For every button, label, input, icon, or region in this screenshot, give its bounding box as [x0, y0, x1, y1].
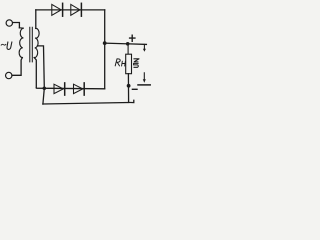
- wire (bottom return rail): [43, 103, 129, 105]
- transformer T1 core: [30, 27, 33, 62]
- wire (secondary center tap): [38, 46, 45, 104]
- wire (load bottom lead): [128, 74, 133, 103]
- node (center-tap / return junction): [43, 87, 47, 91]
- wire (primary bottom to lower terminal): [12, 58, 22, 76]
- label - (negative polarity): [132, 88, 137, 90]
- wire (secondary bottom lead): [34, 58, 36, 88]
- wire (load top tap): [127, 44, 129, 54]
- label + (positive polarity): [130, 35, 135, 41]
- voltage arrow U0 upper segment: [143, 44, 145, 49]
- negative terminal bar: [138, 84, 150, 86]
- wire (secondary top lead to top rail): [35, 10, 37, 29]
- node (negative output junction): [127, 84, 131, 88]
- label U0 (output voltage glyphs): [134, 59, 139, 62]
- wire (top input to primary top): [13, 23, 20, 28]
- wire (bottom rail): [36, 87, 104, 90]
- label RH (load resistor): [115, 59, 120, 66]
- voltage arrow U0 lower segment: [143, 73, 145, 80]
- terminal X1 (top-left input): [6, 20, 12, 26]
- diode D3: [54, 84, 63, 93]
- resistor RH (load): [126, 54, 132, 73]
- wire (top rail): [36, 9, 105, 11]
- transformer T1 primary winding: [19, 28, 24, 58]
- diode D2: [71, 4, 80, 15]
- transformer T1 secondary winding: [34, 28, 39, 57]
- terminal X2 (bottom-left input): [6, 72, 12, 78]
- node (load top junction): [126, 42, 130, 46]
- diode D4: [74, 84, 83, 93]
- label ~U (input voltage): [1, 43, 6, 46]
- diode D1: [52, 4, 61, 15]
- node (bridge + junction): [103, 41, 107, 45]
- wire (right vertical, bridge output side): [104, 10, 106, 89]
- wire (positive output lead): [105, 43, 147, 44]
